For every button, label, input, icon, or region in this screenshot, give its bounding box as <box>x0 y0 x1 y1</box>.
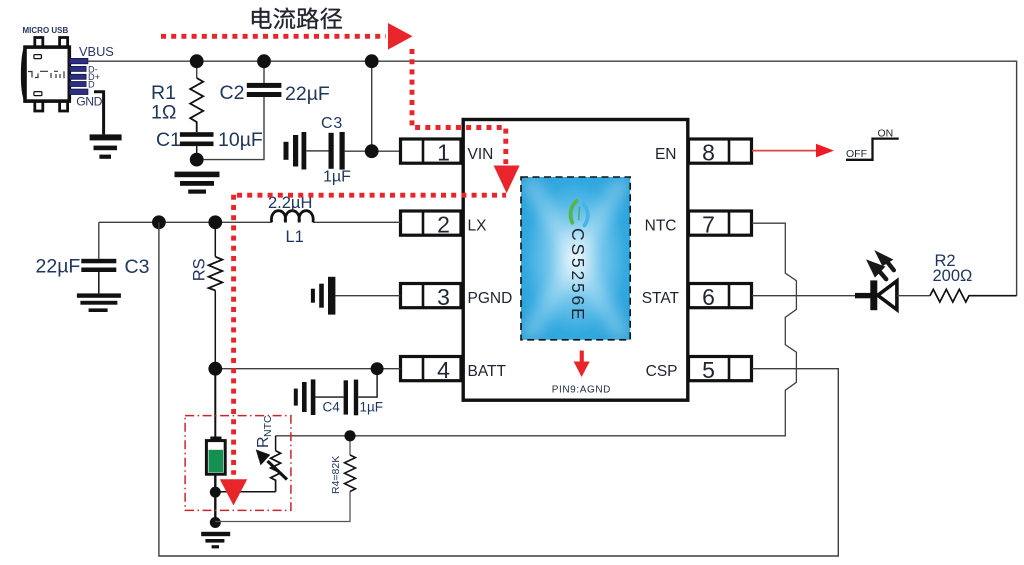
label 电流路径 (drawn glyph paths) <box>252 8 342 30</box>
pin box 7 <box>689 211 752 238</box>
svg-text:L1: L1 <box>286 228 304 246</box>
svg-text:1: 1 <box>437 140 450 166</box>
battery BT1 <box>206 369 225 523</box>
svg-text:C3: C3 <box>125 256 150 278</box>
node RS bottom <box>208 362 222 376</box>
node LX row left <box>152 215 166 229</box>
node LX row RS top <box>208 215 222 229</box>
ground (C4, sideways) <box>294 379 344 415</box>
IC U1 CS5256E body <box>463 120 688 401</box>
ground (22µF) <box>77 293 121 312</box>
svg-text:STAT: STAT <box>642 290 680 307</box>
switch ON/OFF <box>846 139 899 160</box>
ground (C3 input, sideways) <box>284 132 329 170</box>
svg-text:22µF: 22µF <box>285 83 330 105</box>
wire BATT row <box>215 368 400 370</box>
svg-text:200Ω: 200Ω <box>933 267 973 285</box>
svg-text:NTC: NTC <box>262 415 274 437</box>
wire R1 branch down from rail <box>196 61 198 78</box>
svg-text:3: 3 <box>437 284 450 310</box>
svg-text:C4: C4 <box>323 400 341 415</box>
pin box 5 <box>689 357 752 384</box>
pin D- (USB) <box>69 66 86 71</box>
wire NTC: pin7 right, down with hops, left to divider <box>276 223 797 436</box>
red dash-dot battery box <box>185 416 291 511</box>
pin D (USB) <box>69 82 86 87</box>
svg-text:1µF: 1µF <box>360 400 384 415</box>
pin box 2 <box>401 211 462 238</box>
svg-text:PIN9:AGND: PIN9:AGND <box>552 385 611 396</box>
wire thermistor bottom to battery bottom <box>215 491 275 493</box>
wire VIN branch from rail to pin 1 <box>345 61 401 151</box>
connector MICRO USB J1 <box>22 38 87 112</box>
svg-text:BATT: BATT <box>468 363 507 380</box>
wire CSP loop: pin5 right, down, bottom rail, up to LX row <box>159 222 838 556</box>
arrow EN enable (red) <box>752 144 834 158</box>
capacitor C4 <box>344 369 378 416</box>
svg-text:CSP: CSP <box>646 363 678 380</box>
node ground junction <box>210 517 221 528</box>
svg-text:PGND: PGND <box>468 290 513 307</box>
svg-text:C1: C1 <box>156 129 181 151</box>
wire C1 bottom to C2 bottom <box>197 97 264 160</box>
svg-text:RS: RS <box>191 258 209 281</box>
svg-text:4: 4 <box>437 357 450 383</box>
svg-text:1µF: 1µF <box>323 169 351 186</box>
svg-text:OFF: OFF <box>846 148 867 160</box>
pin box 4 <box>401 357 462 384</box>
logo swirl <box>571 201 588 225</box>
pin GND (USB) <box>69 89 88 94</box>
pin box 8 <box>689 139 752 166</box>
resistor R4 <box>215 436 355 522</box>
svg-text:EN: EN <box>655 146 677 163</box>
wire LX row <box>99 221 401 223</box>
svg-text:D: D <box>88 80 95 90</box>
svg-text:C2: C2 <box>220 82 245 104</box>
wire PGND <box>335 295 400 297</box>
svg-text:ON: ON <box>878 127 894 139</box>
svg-text:R: R <box>255 436 272 448</box>
pin box 1 <box>401 139 462 166</box>
capacitor C1 <box>180 132 214 159</box>
node rail VIN branch <box>365 54 379 68</box>
capacitor C3 (input 1µF) <box>329 132 345 170</box>
node battery bottom <box>210 487 221 498</box>
IC die (blue) <box>521 177 630 340</box>
svg-text:1Ω: 1Ω <box>151 102 176 124</box>
svg-text:LX: LX <box>468 217 488 234</box>
label RNTC (rotated) <box>255 415 274 448</box>
resistor R1 <box>190 78 203 132</box>
svg-text:6: 6 <box>702 284 715 310</box>
node VIN <box>365 144 379 158</box>
wire USB GND to ground <box>94 92 104 135</box>
ground (USB) <box>90 134 122 158</box>
current path 1 dotted: top rail into VIN <box>161 23 520 193</box>
svg-text:8: 8 <box>702 140 715 166</box>
svg-text:2: 2 <box>437 212 450 238</box>
capacitor C2 <box>247 61 282 97</box>
capacitor C3 (22µF battery side) <box>81 222 116 293</box>
node NTC divider <box>344 430 355 441</box>
resistor R2 <box>930 289 1017 302</box>
node C1 bottom <box>190 153 204 167</box>
wire LED to R2 <box>897 295 930 297</box>
svg-text:C3: C3 <box>321 115 343 132</box>
pin box 6 <box>689 284 752 311</box>
svg-text:7: 7 <box>702 212 715 238</box>
inductor L1 <box>271 211 313 223</box>
wire VBUS rail from USB to far right and down to R2 <box>88 61 1017 296</box>
pin D+ (USB) <box>69 74 86 79</box>
ground (battery) <box>201 532 230 549</box>
LED D1 <box>855 250 897 310</box>
svg-text:R4=82K: R4=82K <box>330 456 342 494</box>
resistor RS <box>209 222 223 368</box>
svg-text:MICRO USB: MICRO USB <box>23 26 69 35</box>
current path 2 dotted: to battery <box>220 195 506 506</box>
node rail R1 <box>190 54 204 68</box>
node BATT/C4 <box>371 362 384 375</box>
node rail C2 <box>257 54 271 68</box>
ground (C1) <box>175 172 220 194</box>
arrow AGND (red, down) <box>574 351 590 378</box>
wire STAT to LED <box>752 295 856 297</box>
ground (PGND, sideways) <box>311 277 336 315</box>
svg-text:CS5256E: CS5256E <box>568 228 588 323</box>
svg-text:VIN: VIN <box>468 146 494 163</box>
svg-text:22µF: 22µF <box>36 256 81 278</box>
svg-text:GND: GND <box>76 95 102 109</box>
pin VBUS (USB) <box>69 58 88 63</box>
pin box 3 <box>401 284 462 311</box>
svg-text:NTC: NTC <box>645 217 677 234</box>
svg-text:VBUS: VBUS <box>79 44 114 59</box>
svg-text:5: 5 <box>702 357 715 383</box>
thermistor RNTC <box>256 436 287 492</box>
svg-text:10µF: 10µF <box>218 129 263 151</box>
